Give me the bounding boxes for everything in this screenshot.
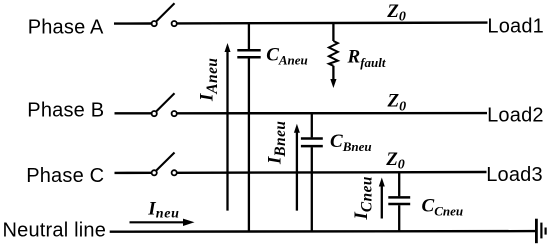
capacitor CBneu top lead	[311, 113, 313, 137]
svg-text:Load1: Load1	[487, 15, 544, 37]
switch SB blade	[156, 93, 174, 111]
capacitor CCneu bottom plate	[388, 203, 410, 206]
wire phase A left stub	[114, 22, 151, 25]
switch SC blade	[156, 153, 174, 171]
capacitor CAneu bottom plate	[237, 56, 260, 59]
current arrow IBneu	[296, 131, 298, 210]
svg-text:Phase C: Phase C	[26, 165, 104, 187]
capacitor CCneu top lead	[398, 172, 400, 196]
wire phase B left stub	[115, 112, 152, 114]
svg-text:Neutral line: Neutral line	[3, 220, 107, 242]
wire phase C main	[177, 171, 487, 174]
resistor Rfault bottom lead with arrow to ground fault	[332, 66, 334, 81]
current arrow IAneu	[226, 51, 228, 211]
capacitor CAneu top lead	[248, 23, 250, 49]
resistor Rfault top lead	[332, 23, 334, 41]
capacitor CAneu bottom lead wire to neutral	[248, 58, 250, 231]
capacitor CCneu bottom lead wire to neutral	[398, 205, 400, 231]
capacitor CBneu bottom lead wire to neutral	[311, 147, 313, 231]
switch SB right contact	[172, 111, 177, 116]
switch SA left contact	[152, 21, 157, 26]
switch SB left contact	[152, 111, 157, 116]
svg-text:Phase A: Phase A	[28, 16, 104, 38]
wire phase B main	[177, 112, 487, 115]
svg-text:Load2: Load2	[487, 105, 544, 127]
switch SA right contact	[172, 21, 177, 26]
wire phase A main	[177, 21, 488, 24]
svg-text:Load3: Load3	[486, 164, 543, 186]
capacitor CBneu bottom plate	[301, 145, 323, 148]
wire phase C left stub	[115, 172, 152, 174]
switch SC right contact	[172, 170, 177, 175]
capacitor CBneu top plate	[301, 137, 323, 140]
switch SA blade	[156, 3, 174, 21]
capacitor CAneu top plate	[237, 49, 260, 52]
current arrow Ineu	[130, 221, 185, 223]
switch SC left contact	[152, 170, 157, 175]
svg-text:Phase B: Phase B	[27, 100, 104, 122]
wire neutral line	[110, 230, 535, 233]
resistor Rfault zigzag body	[329, 41, 338, 66]
ground symbol (earth) at neutral end	[535, 219, 538, 244]
capacitor CCneu top plate	[388, 196, 410, 199]
current arrow ICneu	[381, 185, 383, 219]
